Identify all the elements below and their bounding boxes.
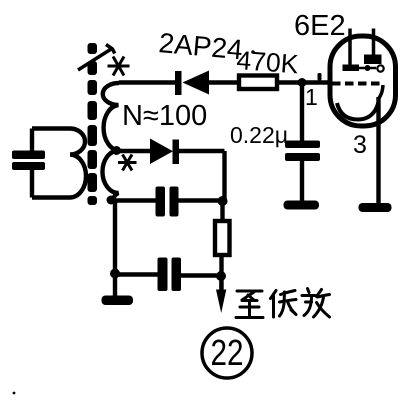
svg-text:470K: 470K: [236, 45, 300, 79]
svg-text:3: 3: [353, 131, 367, 159]
svg-text:22: 22: [211, 332, 244, 373]
svg-text:6E2: 6E2: [294, 10, 346, 42]
svg-text:N≈100: N≈100: [122, 100, 207, 132]
svg-text:1: 1: [305, 84, 318, 110]
svg-text:0.22μ: 0.22μ: [230, 122, 288, 148]
